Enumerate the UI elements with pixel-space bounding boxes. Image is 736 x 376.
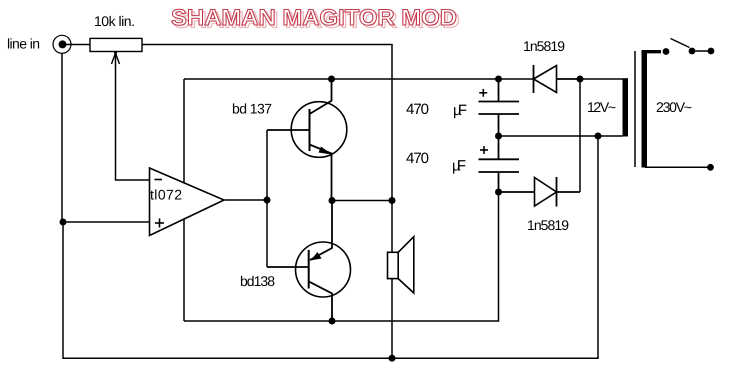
transformer T1 primary winding 12V [623,78,629,136]
node middle rail to bottom return [595,133,602,140]
switch S1 [663,48,670,55]
node speaker return on bottom wire [389,355,396,362]
node Q2 collector on -rail [329,318,336,325]
wire to non-inverting input [63,221,150,223]
capacitor C1 470uF [479,79,520,136]
svg-text:tl072: tl072 [150,187,182,203]
wire op-amp supply pins [183,79,185,321]
diode D2 1n5819 [499,177,581,207]
svg-text:10k lin.: 10k lin. [94,13,135,29]
svg-text:bd 137: bd 137 [232,101,272,117]
wire J1 to P1 [64,44,90,46]
node D1 right [577,76,584,83]
wire D1 anode to transformer node [557,78,581,80]
wire op-amp output [224,199,267,201]
svg-text:12V~: 12V~ [587,99,616,115]
wire speaker to bottom rail [391,279,393,359]
node + input junction [60,219,67,226]
speaker LS1 [388,237,414,293]
capacitor C2 470uF [479,136,520,192]
node output [389,197,396,204]
node caps midpoint [495,133,502,140]
node C2 bottom [495,189,502,196]
svg-text:230V~: 230V~ [656,99,692,115]
wire 230V top stub [644,50,661,53]
wire 230V bottom lead [645,166,708,168]
wire output node down to speaker [391,201,393,253]
svg-text:1n5819: 1n5819 [523,38,565,54]
svg-text:470: 470 [406,150,429,167]
svg-text:SHAMAN MAGITOR MOD: SHAMAN MAGITOR MOD [171,5,457,30]
potentiometer P1 [90,38,142,51]
wiper wire of P1 to op-amp inverting input [116,54,150,180]
title banner SHAMAN MAGITOR MOD [171,5,460,33]
wire positive rail top [184,78,534,80]
svg-text:line in: line in [7,36,40,52]
node emitters junction [329,197,336,204]
connector J1 line in [53,35,71,53]
wire rectifier vertical [579,79,581,192]
svg-text:µF: µF [453,102,467,119]
node C1 top [495,76,502,83]
op-amp U1 tl072 [150,168,225,236]
transformer secondary winding 230V [642,50,648,168]
transformer core [634,51,636,167]
node output to bases [264,197,271,204]
svg-text:470: 470 [406,101,429,118]
svg-text:1n5819: 1n5819 [527,217,569,233]
wiper arrowhead [112,53,120,64]
transistor Q1 bd137 [267,79,347,201]
node mains bottom terminal [707,164,714,171]
node Q1 collector on +rail [328,76,335,83]
wire P1 top rail to feedback corner [142,45,392,201]
wire negative rail bottom [184,192,499,321]
wire caps midpoint to transformer [499,135,623,137]
wire emitters to output node [332,200,392,202]
diode D1 1n5819 [534,65,557,93]
svg-text:µF: µF [452,158,466,175]
svg-text:bd138: bd138 [240,273,275,289]
wire bases vertical [266,130,268,267]
wire ground vertical from J1 [62,53,63,222]
transistor Q2 bd138 [267,201,351,322]
